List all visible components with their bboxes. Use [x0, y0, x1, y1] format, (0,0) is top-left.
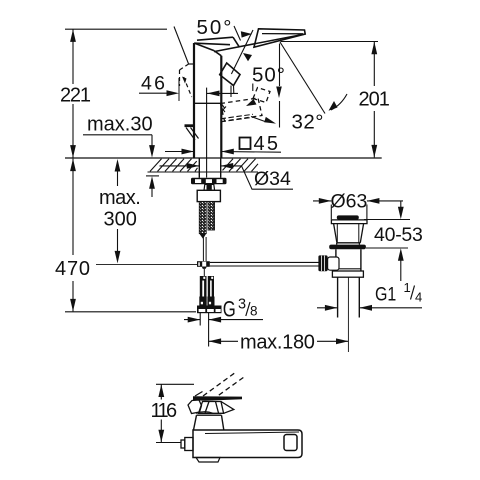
svg-text:G: G — [223, 297, 236, 322]
dimension G 3/8 (supply thread) — [184, 313, 263, 347]
svg-text:221: 221 — [60, 85, 91, 107]
o-ring — [329, 245, 366, 250]
dimension 470 (overall height) — [65, 159, 196, 312]
vertical ref for 32deg — [279, 44, 281, 128]
push button — [337, 215, 359, 219]
dashed lever open (right, 32 deg) — [221, 88, 271, 122]
dashed raised lever — [203, 372, 244, 400]
svg-text:470: 470 — [55, 258, 90, 280]
svg-text:201: 201 — [359, 89, 390, 111]
mounting block — [197, 190, 220, 201]
deck line — [65, 157, 382, 159]
dimension 201 (spout height) — [281, 42, 379, 158]
deck hatching left — [150, 159, 198, 172]
dimension 221 (height to spout tip) — [65, 29, 167, 157]
svg-text:40-53: 40-53 — [374, 224, 423, 246]
dashed handle open position (left of body) — [180, 64, 192, 97]
angle annotations — [174, 26, 347, 114]
pop-up rod upper — [203, 237, 206, 261]
tail bulge — [196, 458, 220, 463]
faucet top chisel + spout — [194, 29, 305, 56]
deck hatching right — [223, 159, 259, 172]
nut — [204, 184, 215, 190]
horizontal rod to drain — [210, 262, 319, 266]
connector base plate — [197, 306, 222, 314]
lever blade — [193, 396, 242, 401]
svg-text:50°: 50° — [197, 16, 232, 39]
svg-text:1: 1 — [404, 280, 411, 295]
dimension square 45 (body width) — [165, 151, 281, 154]
dimension 40-53 (counter range) — [364, 201, 410, 281]
svg-text:4: 4 — [415, 290, 422, 305]
dimension G1 1/4 (waste thread) — [317, 307, 422, 309]
drain body — [332, 249, 363, 277]
dimension diameter 63 (waste flange) — [313, 201, 403, 219]
braided hoses — [199, 202, 214, 239]
tailpipe — [338, 277, 360, 317]
dimension max.180 (faucet to waste) — [209, 340, 349, 342]
svg-text:116: 116 — [151, 400, 178, 422]
flange — [331, 220, 367, 245]
handle knob (closed, diamond) — [220, 63, 240, 97]
lever pivot marks — [221, 103, 227, 113]
cone — [194, 415, 224, 430]
svg-text:3: 3 — [238, 297, 246, 313]
svg-text:max.: max. — [99, 187, 140, 209]
svg-text:8: 8 — [250, 304, 258, 319]
knurled knob — [318, 255, 339, 271]
svg-text:32°: 32° — [292, 111, 324, 134]
mounting flange — [191, 178, 227, 185]
body block — [193, 430, 302, 458]
svg-text:G1: G1 — [375, 283, 396, 305]
left thin ref line — [96, 263, 197, 265]
aerator outlet on body left — [185, 124, 195, 127]
svg-text:50°: 50° — [252, 64, 285, 87]
faucet body column — [194, 43, 221, 178]
dimension 116 (side view height) — [156, 384, 194, 442]
svg-text:Ø63: Ø63 — [331, 191, 368, 213]
svg-text:max.30: max.30 — [87, 114, 153, 136]
svg-text:300: 300 — [104, 209, 137, 231]
movement arrow — [251, 117, 265, 122]
svg-text:Ø34: Ø34 — [254, 168, 291, 190]
aerator nub — [181, 438, 193, 451]
cross fitting — [197, 261, 210, 276]
dimension diameter 34 (shank) — [160, 166, 294, 189]
svg-text:max.180: max.180 — [240, 332, 315, 354]
check valves / connectors — [199, 276, 214, 306]
shank through deck — [199, 158, 220, 178]
spout wedge — [254, 29, 305, 47]
handle mount cluster — [188, 400, 234, 414]
deck underside line — [148, 171, 259, 173]
